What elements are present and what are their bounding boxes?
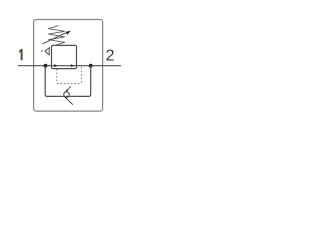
check valve circle bbox=[64, 92, 70, 98]
adjustment arrow bbox=[43, 33, 67, 44]
check valve lower arm bbox=[65, 97, 73, 105]
port label 1 bbox=[19, 49, 23, 60]
spring bbox=[48, 26, 65, 46]
relief vent triangle bbox=[45, 48, 49, 55]
check valve arrowhead bbox=[65, 89, 68, 92]
flow arrowhead left bbox=[54, 64, 57, 67]
wire bypass left vertical bbox=[45, 66, 62, 96]
check valve upper arm bbox=[65, 86, 71, 92]
enclosure frame bbox=[34, 20, 103, 112]
svg-text:2: 2 bbox=[106, 48, 115, 65]
pilot dashed line bbox=[57, 66, 82, 83]
valve box V1 bbox=[52, 45, 77, 68]
node junction right bbox=[89, 64, 93, 68]
wire bypass middle bbox=[62, 95, 71, 97]
node junction left bbox=[44, 64, 48, 68]
wire bypass right vertical bbox=[71, 66, 91, 96]
flow arrowhead right bbox=[71, 64, 74, 67]
vent dot bbox=[41, 50, 43, 52]
wire main line port1 to port2 bbox=[18, 65, 121, 67]
